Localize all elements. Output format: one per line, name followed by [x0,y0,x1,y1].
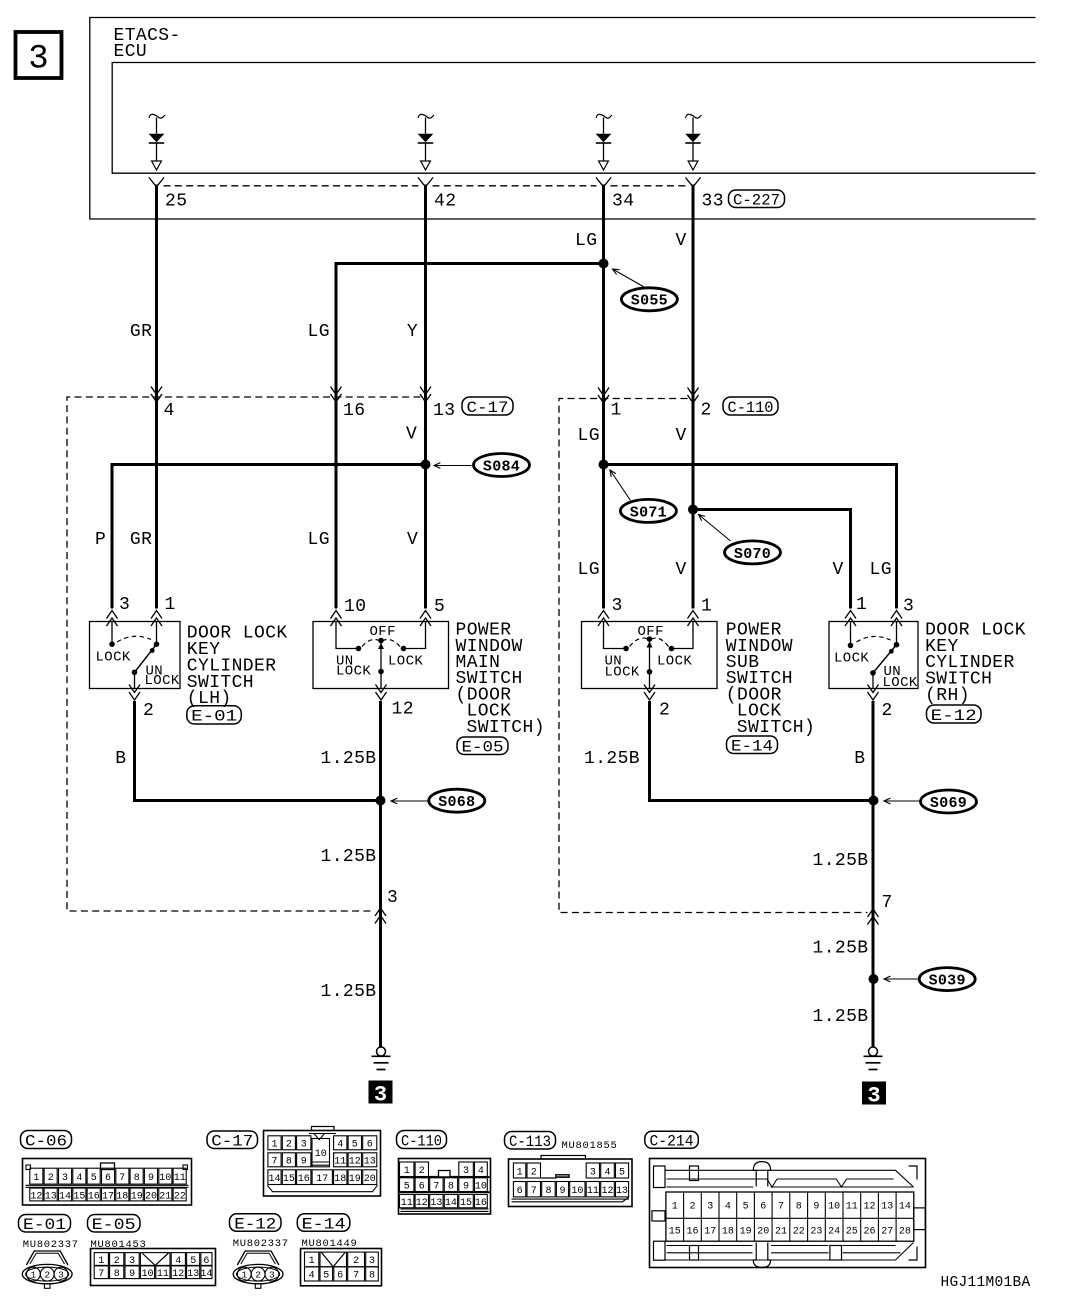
left ground crossing pin 3 [375,908,386,924]
svg-text:MU802337: MU802337 [233,1238,289,1250]
svg-text:11: 11 [174,1173,186,1184]
svg-text:5: 5 [743,1202,749,1213]
switch E-05 box [313,622,449,689]
svg-text:OFF: OFF [370,624,396,640]
wire color label B left [115,749,126,769]
svg-text:SWITCH): SWITCH) [737,718,815,738]
svg-text:10: 10 [344,597,366,617]
switch label E-05 [457,737,508,757]
connector pinout E-14 [301,1249,382,1286]
svg-text:10: 10 [475,1182,487,1193]
right ground page ref 3 [862,1082,886,1109]
svg-text:12: 12 [863,1202,875,1213]
svg-text:S055: S055 [631,293,668,310]
svg-text:1.25B: 1.25B [321,847,377,867]
wire color label LG left [308,322,330,342]
svg-text:6: 6 [105,1173,111,1184]
svg-text:11: 11 [587,1186,599,1197]
E-05 pin10 number [344,597,366,617]
svg-text:2: 2 [255,1270,261,1281]
pin number 2 at C-110 line [701,401,712,421]
E-14 description text [726,621,815,738]
svg-text:7: 7 [119,1173,125,1184]
svg-text:8: 8 [114,1269,120,1280]
svg-text:OFF: OFF [638,624,664,640]
svg-text:13: 13 [616,1186,628,1197]
svg-text:SWITCH): SWITCH) [467,718,545,738]
svg-text:1: 1 [241,1270,247,1281]
svg-text:12: 12 [392,700,414,720]
svg-text:9: 9 [301,1157,307,1168]
wire 1.25B from E-05 pin12 to ground [379,701,382,1047]
wire color label P above E-01 pin3 [95,530,106,550]
svg-text:1: 1 [701,597,712,617]
svg-text:E-01: E-01 [191,708,237,726]
diode D1 (ETACS internal, pin below) [149,114,165,170]
connector pinout E-05 [91,1249,216,1286]
connector part number MU801453 [91,1239,147,1251]
svg-text:C-110: C-110 [728,399,774,417]
wire color label B right [854,749,865,769]
svg-text:25: 25 [165,192,187,212]
svg-text:21: 21 [775,1227,787,1238]
E-12 pin1 chevron [845,611,856,627]
connector label C-113 [505,1132,556,1152]
connector label C-17 [462,397,513,417]
E-01 internal contacts [109,622,159,689]
svg-text:7: 7 [531,1186,537,1197]
terminal pin 34 at C-227 [596,177,611,187]
wire color label LG above E-12 pin3 [870,560,892,580]
connector part number MU802337 right [233,1238,289,1250]
svg-text:3: 3 [28,40,48,78]
svg-text:8: 8 [448,1182,454,1193]
svg-text:3: 3 [903,597,914,617]
svg-text:E-05: E-05 [92,1216,136,1234]
svg-text:16: 16 [88,1191,100,1202]
wire color label 1.25B right upper [813,851,869,871]
connector label C-214 [645,1131,699,1150]
switch label E-12 [927,705,982,725]
svg-text:V: V [407,530,418,550]
svg-text:6: 6 [367,1140,373,1151]
E-12 pin3 number [903,597,914,617]
junction S069 [869,796,879,806]
svg-text:22: 22 [793,1227,805,1238]
svg-text:HGJ11M01BA: HGJ11M01BA [941,1275,1031,1291]
connector label C-227 [729,190,785,210]
page number box 3 [16,32,62,78]
svg-text:S070: S070 [734,546,771,563]
svg-text:3: 3 [58,1270,64,1281]
junction S068 [376,796,386,806]
E-01 description text [187,624,288,710]
svg-text:5: 5 [434,597,445,617]
svg-text:5: 5 [91,1173,97,1184]
svg-text:14: 14 [59,1191,71,1202]
svg-text:Y: Y [407,322,418,342]
svg-text:1: 1 [165,595,176,615]
pin number 16 at C-17 line [343,401,365,421]
ETACS-ECU label [114,26,181,62]
svg-text:3: 3 [707,1202,713,1213]
svg-text:7: 7 [271,1157,277,1168]
E-05 UN LOCK label [336,654,371,680]
svg-text:2: 2 [48,1173,54,1184]
svg-text:7: 7 [882,893,893,913]
svg-text:LG: LG [308,322,330,342]
svg-text:1: 1 [672,1202,678,1213]
svg-text:2: 2 [143,701,154,721]
svg-text:1.25B: 1.25B [813,939,869,959]
right ground [864,1047,883,1070]
svg-text:LOCK: LOCK [336,664,371,680]
E-12 LOCK label [834,651,869,667]
E-12 pin3 chevron [891,611,902,627]
E-14 OFF label [638,624,664,640]
svg-text:14: 14 [200,1269,212,1280]
svg-text:C-110: C-110 [401,1132,442,1150]
pin number 1 at C-110 line [611,401,622,421]
svg-text:5: 5 [619,1167,625,1178]
svg-text:6: 6 [517,1186,523,1197]
connector label E-05 bottom [88,1215,141,1235]
svg-text:C-17: C-17 [211,1133,253,1151]
connector label E-14 bottom [297,1214,350,1234]
svg-text:(RH): (RH) [925,686,970,706]
svg-text:C-214: C-214 [650,1133,694,1151]
wire color label 1.25B right lower [813,1007,869,1027]
junction S084 [421,460,431,470]
connector pinout E-12 (3-pin round) [233,1251,283,1288]
svg-text:MU801855: MU801855 [562,1140,618,1152]
E-05 pin5 number [434,597,445,617]
svg-text:6: 6 [419,1182,425,1193]
svg-text:26: 26 [863,1227,875,1238]
svg-text:14: 14 [268,1174,280,1185]
wire GR pin25 to E-01 pin1 [155,185,158,609]
svg-text:12: 12 [601,1186,613,1197]
E-14 internal contacts [604,622,694,689]
svg-text:1: 1 [404,1166,410,1177]
svg-text:2: 2 [114,1256,120,1267]
connector pinout E-01 (3-pin round) [22,1251,72,1288]
connector label E-01 bottom [19,1215,71,1235]
svg-text:16: 16 [343,401,365,421]
E-05 internal contacts [336,622,426,689]
svg-text:B: B [854,749,865,769]
svg-text:E-12: E-12 [931,707,977,725]
connector pinout C-214 [650,1159,926,1268]
svg-text:4: 4 [309,1271,315,1282]
svg-text:19: 19 [740,1227,752,1238]
svg-text:12: 12 [349,1157,361,1168]
svg-text:S084: S084 [483,458,520,475]
svg-text:14: 14 [899,1202,911,1213]
connector part number MU801855 [562,1140,618,1152]
svg-text:1: 1 [271,1140,277,1151]
switch label E-01 [187,706,242,726]
svg-text:4: 4 [337,1140,343,1151]
svg-text:1: 1 [31,1270,37,1281]
pin number 4 at C-17 line [164,401,175,421]
svg-text:1: 1 [517,1167,523,1178]
svg-text:25: 25 [846,1227,858,1238]
splice label S071 [610,470,676,522]
svg-text:3: 3 [590,1167,596,1178]
svg-text:S039: S039 [929,973,966,990]
svg-text:20: 20 [757,1227,769,1238]
C-17 crossing pin 4 [151,387,162,403]
svg-text:LG: LG [870,560,892,580]
E-14 LOCK label [657,654,692,670]
connector C-227 dashed line [164,185,686,187]
svg-text:18: 18 [334,1174,346,1185]
E-01 LOCK label [96,650,131,666]
wire branch S071 to E-12 pin3 (LG) [604,465,897,609]
svg-text:MU801453: MU801453 [91,1239,147,1251]
svg-text:6: 6 [337,1271,343,1282]
E-14 UN LOCK label [605,654,640,681]
C-110 crossing pin 2 [688,388,699,404]
svg-text:2: 2 [286,1140,292,1151]
E-14 pin1 number [701,597,712,617]
svg-text:13: 13 [430,1198,442,1209]
svg-text:20: 20 [364,1174,376,1185]
svg-text:E-12: E-12 [234,1215,276,1233]
wire branch S084 to E-01 pin3 (P) [112,465,426,609]
svg-text:ECU: ECU [114,42,148,62]
splice label S084 [434,454,530,477]
svg-text:2: 2 [353,1256,359,1267]
pin number 33 [702,192,724,212]
E-12 pin2 chevron [868,685,879,701]
svg-text:4: 4 [725,1202,731,1213]
svg-text:V: V [676,560,687,580]
svg-text:22: 22 [174,1191,186,1202]
wire V pin33 to E-14 pin1 [692,185,695,609]
svg-text:8: 8 [796,1202,802,1213]
svg-text:12: 12 [172,1269,184,1280]
junction S039 [869,974,879,984]
connector label C-06 [21,1131,72,1151]
E-01 pin2 number [143,701,154,721]
E-14 pin2 number [659,701,670,721]
E-12 pin1 number [856,595,867,615]
svg-text:9: 9 [813,1202,819,1213]
svg-text:3: 3 [387,888,398,908]
E-05 pin12 chevron [376,685,387,701]
svg-text:LOCK: LOCK [605,665,640,681]
junction S055 [599,259,609,269]
svg-text:13: 13 [45,1191,57,1202]
svg-text:12: 12 [416,1198,428,1209]
terminal pin 33 at C-227 [686,177,701,187]
connector part number MU801449 [302,1238,358,1250]
svg-text:1: 1 [98,1256,104,1267]
wire color label LG above E-14 pin3 [578,560,600,580]
wire color label V above E-14 pin1 [676,560,687,580]
svg-text:GR: GR [130,322,152,342]
svg-text:10: 10 [828,1202,840,1213]
junction S071 [599,460,609,470]
dashed harness box left (C-17) [67,397,421,911]
svg-text:11: 11 [334,1157,346,1168]
svg-text:V: V [676,426,687,446]
svg-text:23: 23 [810,1227,822,1238]
svg-text:8: 8 [134,1173,140,1184]
svg-text:2: 2 [882,701,893,721]
svg-text:7: 7 [353,1271,359,1282]
svg-text:LOCK: LOCK [834,651,869,667]
switch E-14 box [582,622,718,689]
E-12 UN LOCK label [883,664,918,691]
switch E-01 box [90,622,181,689]
E-01 pin3 number [119,595,130,615]
svg-text:1.25B: 1.25B [321,982,377,1002]
svg-text:LOCK: LOCK [145,673,180,689]
svg-text:3: 3 [612,596,623,616]
svg-text:15: 15 [669,1227,681,1238]
svg-text:20: 20 [145,1191,157,1202]
svg-text:13: 13 [187,1269,199,1280]
svg-text:5: 5 [404,1182,410,1193]
wire color label 1.25B left lower [321,982,377,1002]
wire branch S070 to E-12 pin1 (V) [693,510,851,609]
svg-text:9: 9 [559,1186,565,1197]
E-14 pin3 chevron [598,611,609,627]
svg-text:8: 8 [369,1271,375,1282]
svg-text:1: 1 [611,401,622,421]
ETACS-ECU outer box [90,18,1036,220]
connector pinout C-113 [509,1156,633,1207]
connector label E-12 bottom [230,1214,282,1234]
svg-text:10: 10 [315,1149,327,1160]
svg-text:10: 10 [141,1269,153,1280]
E-01 UN LOCK label [145,664,180,690]
svg-text:1: 1 [309,1256,315,1267]
wire color label V above E-05 pin5 [407,530,418,550]
E-14 pin3 number [612,596,623,616]
svg-text:LG: LG [578,560,600,580]
svg-text:14: 14 [445,1198,457,1209]
svg-text:13: 13 [364,1157,376,1168]
E-05 pin10 chevron [331,611,342,627]
diode D3 (ETACS internal, pin below) [596,114,612,170]
connector label C-110 [723,397,778,417]
wire color label V below pin13 [406,425,417,445]
pin number 3 at left crossing [387,888,398,908]
svg-text:S069: S069 [930,795,967,812]
svg-text:15: 15 [73,1191,85,1202]
svg-text:C-06: C-06 [25,1132,67,1150]
wire LG pin34 to E-14 pin3 [602,185,605,609]
connector label C-110 bottom [397,1131,447,1151]
svg-text:1.25B: 1.25B [321,749,377,769]
wire color label V right top [676,231,687,251]
svg-text:V: V [676,231,687,251]
switch label E-14 [727,736,778,756]
svg-text:9: 9 [129,1269,135,1280]
E-05 LOCK label [388,654,423,670]
dashed harness box right (C-110) [559,399,868,913]
svg-text:E-14: E-14 [731,738,773,756]
E-05 description text [456,621,545,738]
svg-text:9: 9 [463,1182,469,1193]
pin number 25 [165,192,187,212]
svg-text:3: 3 [269,1270,275,1281]
svg-text:LG: LG [308,530,330,550]
splice label S055 [613,269,678,311]
E-14 pin1 chevron [688,611,699,627]
svg-text:11: 11 [846,1202,858,1213]
svg-text:2: 2 [531,1167,537,1178]
svg-text:1: 1 [856,595,867,615]
C-17 crossing pin 13 [420,387,431,403]
connector pinout C-17 [264,1127,381,1197]
svg-text:2: 2 [659,701,670,721]
svg-text:16: 16 [686,1227,698,1238]
wire LG branch from S055 to E-05 pin10 [336,264,604,609]
splice label S070 [699,515,781,564]
svg-text:33: 33 [702,192,724,212]
switch E-12 box [829,622,918,689]
terminal pin 42 at C-227 [418,177,433,187]
svg-text:13: 13 [433,401,455,421]
svg-text:18: 18 [722,1227,734,1238]
svg-text:GR: GR [130,530,152,550]
svg-text:6: 6 [760,1202,766,1213]
wire color label GR [130,322,152,342]
svg-text:7: 7 [778,1202,784,1213]
svg-text:15: 15 [283,1174,295,1185]
splice label S068 [391,789,485,812]
C-17 crossing pin 16 [331,387,342,403]
ETACS-ECU inner box [112,63,1035,174]
svg-text:V: V [833,560,844,580]
svg-text:3: 3 [119,595,130,615]
svg-text:P: P [95,530,106,550]
connector pinout C-06 [23,1159,192,1206]
splice label S069 [884,790,977,813]
svg-text:3: 3 [301,1140,307,1151]
svg-text:11: 11 [157,1269,169,1280]
svg-text:16: 16 [475,1198,487,1209]
E-05 OFF label [370,624,396,640]
left ground page ref 3 [369,1081,393,1108]
splice label S039 [884,968,975,991]
E-12 internal contacts [848,622,900,689]
svg-text:13: 13 [881,1202,893,1213]
wire color label V above E-12 pin1 [833,560,844,580]
E-01 pin2 chevron [129,685,140,701]
svg-text:11: 11 [401,1198,413,1209]
svg-text:2: 2 [419,1166,425,1177]
svg-text:15: 15 [460,1198,472,1209]
right ground crossing pin 7 [868,909,879,925]
E-12 description text [925,621,1026,706]
wire color label Y [407,322,418,342]
document number HGJ11M01BA [941,1275,1031,1291]
pin number 7 at right crossing [882,893,893,913]
svg-text:19: 19 [349,1174,361,1185]
svg-text:8: 8 [545,1186,551,1197]
svg-text:2: 2 [689,1202,695,1213]
svg-text:MU802337: MU802337 [23,1239,79,1251]
svg-text:B: B [115,749,126,769]
svg-text:3: 3 [129,1256,135,1267]
wire 1.25B from E-14 pin2 to S069 [650,701,874,801]
